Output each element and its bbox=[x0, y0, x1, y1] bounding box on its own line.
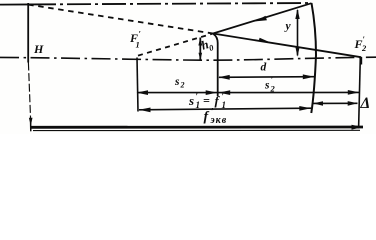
arrowhead h0 top bbox=[198, 37, 202, 45]
label h0 bbox=[199, 36, 215, 55]
node secondary plane vertical (H2) bbox=[214, 34, 218, 96]
arrowhead on ray from primary to secondary (points left-down) bbox=[255, 16, 267, 22]
arrowhead delta left bbox=[313, 101, 323, 106]
svg-text:y: y bbox=[284, 21, 292, 33]
node H plane extension down to f_ekv line bbox=[28, 63, 30, 120]
svg-text:=: = bbox=[203, 93, 210, 107]
wire solid ray from h0 point to top of primary mirror bbox=[213, 3, 312, 33]
arrowheads bbox=[29, 9, 363, 130]
dimension h0 vertical marker bbox=[199, 38, 201, 61]
svg-text:экв: экв bbox=[210, 115, 228, 126]
node right dimension boundary below F2' bbox=[359, 58, 361, 129]
node principal plane H (vertical line) bbox=[27, 3, 29, 63]
dimension delta line bbox=[313, 102, 358, 104]
arrowhead H extension bottom (down, at f_ekv line) bbox=[29, 118, 33, 127]
wire incident parallel ray (dash-dot, top) bbox=[0, 3, 32, 5]
wire faint second bottom rule bbox=[33, 129, 360, 131]
arrowhead h0 bottom bbox=[199, 53, 203, 61]
svg-text:1: 1 bbox=[136, 40, 140, 50]
svg-text:′: ′ bbox=[139, 29, 141, 39]
dimension s2' line bbox=[219, 91, 360, 93]
arrowhead y bottom bbox=[295, 47, 299, 57]
arrowhead s2 left bbox=[137, 90, 149, 95]
svg-text:2: 2 bbox=[361, 43, 367, 53]
wire dashed back-extension of emergent ray from H to h0 point bbox=[28, 5, 213, 34]
dimension y vertical line bbox=[297, 10, 299, 56]
node f_ekv left end tick bbox=[30, 123, 32, 132]
svg-text:s: s bbox=[188, 93, 194, 108]
arrowhead s2' left bbox=[219, 90, 231, 95]
optical axis (dash-dot) bbox=[0, 57, 376, 60]
svg-text:0: 0 bbox=[208, 42, 216, 53]
svg-text:s: s bbox=[174, 76, 180, 88]
node F2' tick on axis bbox=[360, 57, 362, 65]
wire dashed ray from F1' up to h0 point bbox=[138, 34, 213, 56]
node left dimension boundary below F1' bbox=[137, 58, 138, 112]
arrowhead y top bbox=[295, 9, 299, 19]
arrowhead s1' right bbox=[299, 106, 311, 111]
svg-text:d: d bbox=[261, 62, 267, 74]
arrowhead f_ekv right bbox=[352, 125, 364, 130]
arrowhead d right bbox=[303, 74, 315, 79]
arrowhead s2' right bbox=[348, 90, 360, 95]
svg-text:f: f bbox=[215, 93, 221, 108]
arrowhead d left bbox=[218, 75, 230, 80]
dimension s1'=f1' line bbox=[139, 108, 311, 110]
svg-text:Δ: Δ bbox=[360, 95, 371, 112]
wire solid emergent ray from h0 point to F2' bbox=[213, 34, 361, 58]
svg-text:1: 1 bbox=[196, 100, 201, 110]
arrowhead s2 right bbox=[206, 90, 218, 95]
svg-text:s: s bbox=[264, 79, 270, 91]
dimension f_ekv thick bottom line bbox=[31, 126, 364, 129]
arrowhead ray to F2' (mid arrow) bbox=[259, 38, 272, 43]
arrowhead delta right bbox=[348, 101, 358, 106]
svg-text:2: 2 bbox=[270, 83, 276, 93]
mirror primary (curved element, right) bbox=[311, 3, 316, 113]
dimension s2 line bbox=[137, 92, 217, 94]
dimension d line bbox=[219, 76, 314, 79]
arrowhead s1' left bbox=[139, 108, 151, 113]
svg-text:H: H bbox=[33, 42, 44, 56]
svg-text:2: 2 bbox=[180, 80, 185, 89]
svg-text:1: 1 bbox=[222, 100, 227, 110]
svg-text:f: f bbox=[204, 110, 210, 125]
